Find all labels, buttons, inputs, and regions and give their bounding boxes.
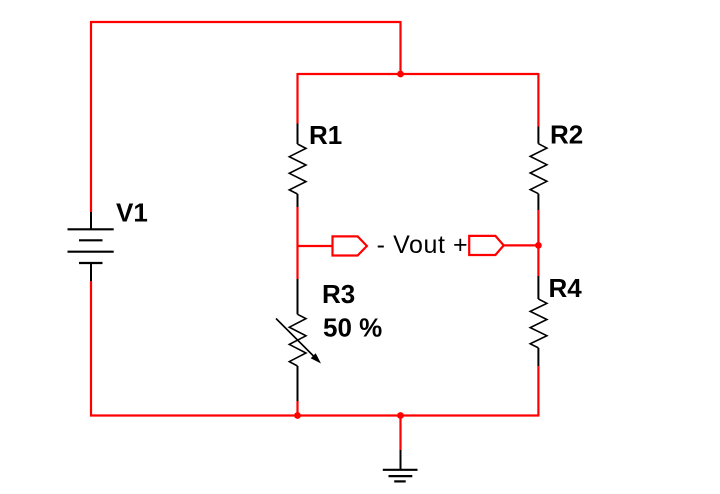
wire top horizontal — [90, 21, 401, 23]
wire battery positive to top-left corner — [90, 22, 92, 212]
wire stub to Vout minus flag — [298, 245, 333, 247]
node top junction — [397, 71, 404, 78]
wire R3 to bottom rail — [296, 401, 298, 416]
wire R4 to bottom rail — [537, 366, 539, 417]
svg-text:50 %: 50 % — [323, 313, 382, 343]
ground — [383, 450, 418, 481]
node bottom left junction — [294, 412, 301, 419]
svg-text:R4: R4 — [549, 273, 583, 303]
node bottom ground junction — [397, 412, 404, 419]
svg-text:R3: R3 — [322, 279, 355, 309]
svg-text:V1: V1 — [116, 198, 148, 228]
wire bridge top rail — [298, 73, 539, 75]
net flag Vout minus — [333, 236, 367, 255]
potentiometer R3 — [276, 279, 321, 401]
node right mid junction — [535, 242, 542, 249]
net flag Vout plus — [469, 236, 504, 255]
wiper arrow of R3 — [276, 319, 318, 361]
wire top drop to bridge — [399, 21, 401, 74]
resistor R2 — [530, 127, 547, 211]
wire R1 to R3 — [296, 207, 298, 279]
wire bottom rail — [90, 414, 539, 416]
svg-text:R2: R2 — [550, 120, 583, 150]
wire Vout plus flag to right branch — [504, 244, 539, 246]
wire bridge top to R2 — [537, 73, 539, 127]
resistor R4 — [530, 276, 547, 366]
wire R2 to mid node — [537, 210, 539, 245]
battery V1 — [68, 212, 114, 281]
resistor R1 — [289, 124, 306, 208]
wire mid node to R4 — [537, 245, 539, 276]
svg-text:R1: R1 — [309, 120, 342, 150]
wire bridge top to R1 — [296, 73, 298, 124]
wire ground drop — [399, 416, 401, 451]
svg-text:- Vout +: - Vout + — [377, 231, 469, 259]
wire battery negative to bottom rail — [90, 281, 92, 417]
